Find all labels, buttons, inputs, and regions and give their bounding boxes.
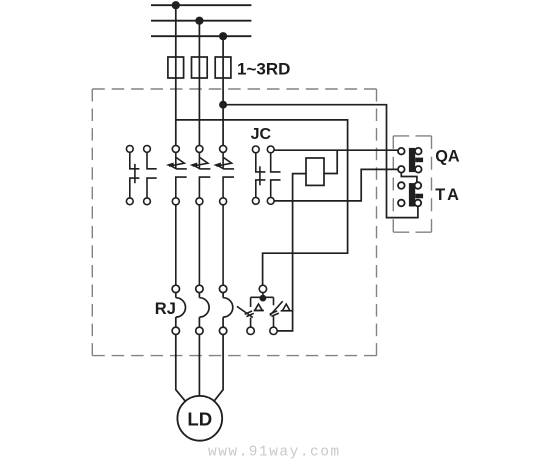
svg-text:JC: JC: [251, 126, 272, 143]
svg-text:1~3RD: 1~3RD: [237, 60, 290, 79]
svg-text:RJ: RJ: [155, 300, 176, 318]
svg-text:QA: QA: [435, 147, 460, 165]
svg-text:www.91way.com: www.91way.com: [208, 445, 341, 461]
svg-text:LD: LD: [187, 409, 212, 430]
svg-text:TA: TA: [435, 186, 462, 204]
